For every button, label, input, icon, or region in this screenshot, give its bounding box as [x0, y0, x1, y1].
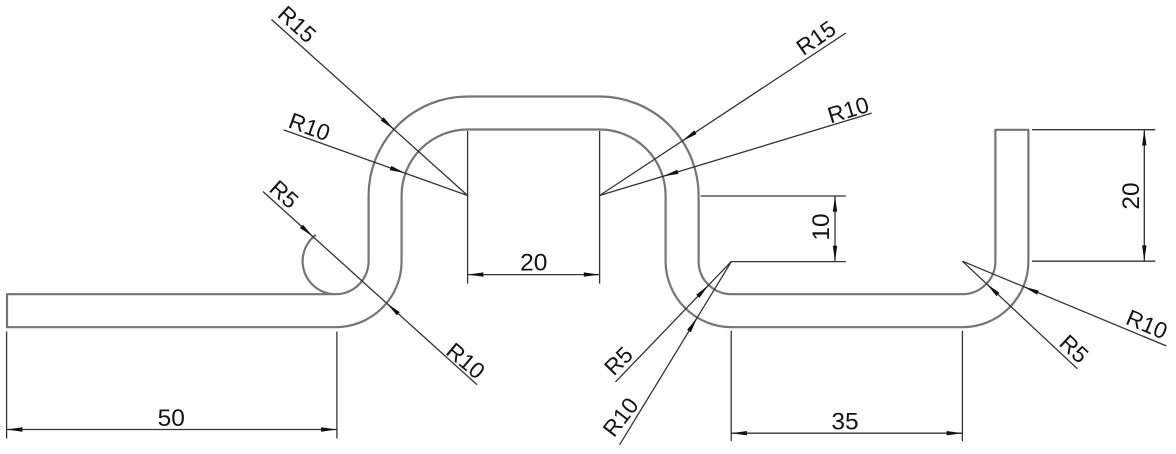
dim 20 top line + arrows	[468, 274, 600, 276]
leader R5 + R10 bottom left through-line	[263, 192, 477, 385]
dim 35 line + arrows	[731, 432, 962, 434]
leader R10 stub	[962, 261, 1166, 346]
dim 10 line + arrows	[834, 196, 836, 262]
svg-text:20: 20	[1118, 182, 1145, 209]
leader R10 left inner	[284, 130, 468, 196]
svg-text:10: 10	[808, 213, 835, 240]
leader R5 hump right	[616, 261, 732, 382]
dim 50 extension lines	[6, 332, 8, 439]
leader R15 left	[272, 20, 468, 196]
dim 10 extension lines	[701, 195, 846, 197]
dim 20 right extension lines	[1032, 129, 1155, 131]
dim 20 right line + arrows	[1143, 130, 1145, 262]
dim 20 top extension lines	[467, 131, 469, 284]
dim 35 extension lines	[730, 331, 732, 442]
leader R5 stub	[962, 261, 1077, 369]
svg-text:20: 20	[520, 250, 547, 277]
svg-text:50: 50	[158, 405, 185, 432]
leader R10 right inner	[600, 113, 872, 195]
dim 50 line + arrows	[7, 429, 337, 431]
leader R15 right	[600, 33, 846, 196]
part outline: bent sheet-metal profile with R5 bump at lower-left bend	[7, 97, 1028, 328]
leader R10 hump right	[620, 261, 732, 445]
svg-text:35: 35	[831, 409, 858, 436]
